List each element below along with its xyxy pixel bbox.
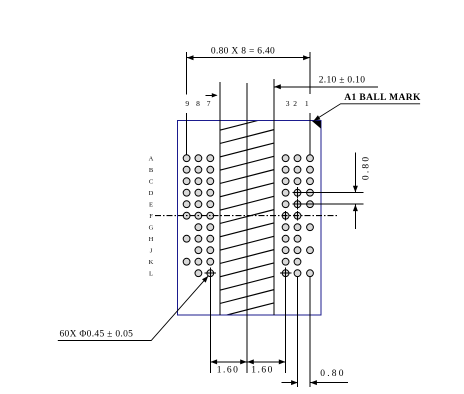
svg-text:0.80 X 8 = 6.40: 0.80 X 8 = 6.40 bbox=[211, 47, 275, 57]
svg-text:8: 8 bbox=[196, 99, 200, 108]
svg-text:L: L bbox=[149, 270, 153, 277]
svg-text:G: G bbox=[149, 224, 154, 231]
svg-text:C: C bbox=[149, 178, 153, 185]
svg-text:2.10 ± 0.10: 2.10 ± 0.10 bbox=[319, 76, 366, 86]
svg-text:9: 9 bbox=[185, 99, 189, 108]
svg-text:H: H bbox=[149, 236, 154, 243]
svg-text:A: A bbox=[149, 155, 154, 162]
svg-text:K: K bbox=[149, 259, 154, 266]
svg-text:1: 1 bbox=[305, 99, 309, 108]
svg-text:D: D bbox=[149, 190, 154, 197]
svg-text:1.60: 1.60 bbox=[217, 366, 240, 376]
svg-text:0.80: 0.80 bbox=[320, 369, 345, 379]
svg-text:60X Φ0.45 ± 0.05: 60X Φ0.45 ± 0.05 bbox=[60, 330, 134, 340]
svg-text:2: 2 bbox=[293, 99, 297, 108]
svg-text:3: 3 bbox=[286, 99, 290, 108]
svg-text:A1 BALL MARK: A1 BALL MARK bbox=[344, 93, 421, 103]
svg-text:1.60: 1.60 bbox=[251, 366, 274, 376]
svg-text:7: 7 bbox=[207, 99, 211, 108]
svg-text:F: F bbox=[149, 213, 153, 220]
svg-text:0.80: 0.80 bbox=[361, 155, 371, 180]
svg-text:B: B bbox=[149, 167, 154, 174]
svg-text:J: J bbox=[150, 247, 153, 254]
svg-text:E: E bbox=[149, 201, 153, 208]
